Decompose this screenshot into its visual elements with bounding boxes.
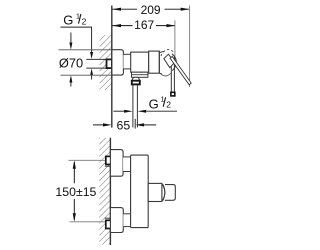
base plate under body (top view): [132, 72, 148, 77]
top escutcheon (front view): [110, 150, 123, 177]
union nipple in wall (top view): [107, 59, 112, 68]
supply pipe in wall (top view): [86, 58, 106, 60]
svg-text:Ø70: Ø70: [59, 55, 83, 70]
svg-text:150±15: 150±15: [55, 185, 96, 199]
wall hatch (front view): [99, 138, 110, 245]
svg-text:G: G: [63, 13, 73, 28]
G 1/2 outlet arrows: [113, 110, 124, 112]
dimension 65: [93, 123, 156, 126]
dimension 150+-15 extension lines: [69, 159, 106, 161]
outlet collar thread (top view): [132, 81, 140, 85]
shower mixer installation drawing, top view and front view: [0, 0, 250, 250]
handle hub (front view): [148, 183, 162, 201]
mixer body section B (top view): [149, 51, 160, 73]
svg-text:65: 65: [117, 119, 131, 133]
lever diagonal position (top view): [170, 56, 191, 84]
svg-text:2: 2: [82, 16, 87, 26]
neck between escutcheon and body (top view): [123, 54, 130, 69]
handle cap (top view): [159, 52, 164, 53]
small arc at cap bottom: [161, 73, 171, 76]
extension line 209 right: [189, 6, 191, 88]
dimension O70 extension lines: [59, 49, 112, 51]
65 right extension tick: [134, 119, 136, 129]
body/cap boundary line: [158, 51, 160, 73]
svg-text:209: 209: [141, 3, 161, 17]
mixer body (front view): [131, 155, 149, 228]
wall line (front view): [109, 138, 111, 245]
leader arrow down to pipe: [91, 27, 93, 52]
extension line 167 right: [174, 20, 176, 60]
dimension 167: [112, 24, 175, 27]
dimension 209: [112, 8, 189, 11]
lever vertical position (top view): [170, 57, 172, 93]
lever wedge hub (top view): [164, 54, 175, 67]
escutcheon (top view): [112, 50, 124, 75]
bottom union nipple (front view): [106, 220, 112, 228]
top neck (front view): [123, 157, 131, 172]
dimension 150+-15 line and arrows: [73, 160, 76, 222]
top union nipple (front view): [106, 156, 112, 164]
outlet dome (top view): [132, 77, 139, 80]
O70 arrows: [70, 33, 72, 43]
dashed swing arc (top view): [161, 50, 174, 56]
outlet pipes down (top view): [132, 85, 134, 128]
wall line (top view): [111, 6, 113, 128]
pipe dimension arrow up: [90, 68, 93, 75]
svg-text:167: 167: [134, 18, 154, 32]
leader underline for G 1/2: [60, 26, 92, 28]
bottom neck (front view): [123, 214, 130, 227]
bottom escutcheon (front view): [110, 208, 123, 233]
wall hatch (top view): [100, 35, 112, 90]
mixer body section A (top view): [131, 52, 149, 72]
handle knob (front view): [165, 185, 175, 201]
svg-text:G: G: [149, 96, 159, 111]
svg-text:2: 2: [166, 100, 171, 110]
handle crescent arcs (front view): [162, 184, 165, 202]
